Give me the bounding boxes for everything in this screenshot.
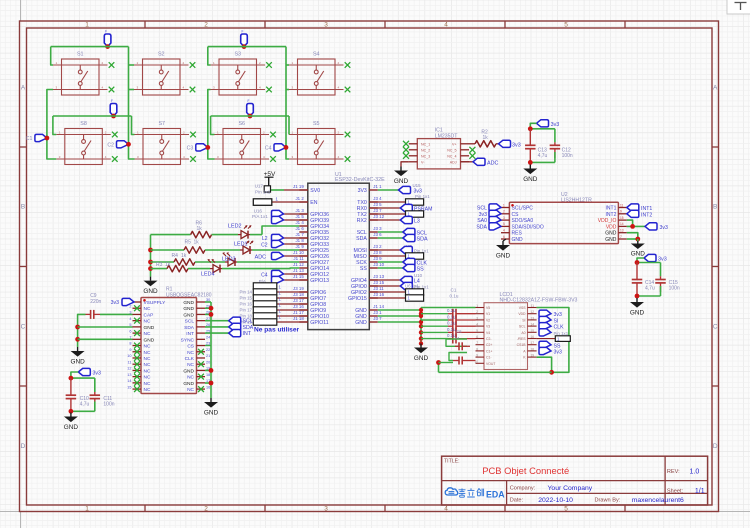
svg-text:11: 11	[531, 304, 535, 308]
svg-text:U16: U16	[254, 209, 263, 214]
svg-text:SCL: SCL	[243, 319, 253, 325]
svg-text:TITLE:: TITLE:	[444, 458, 460, 464]
svg-text:9: 9	[620, 210, 622, 214]
svg-text:2: 2	[204, 22, 208, 29]
svg-text:B: B	[713, 204, 717, 211]
svg-text:C: C	[713, 324, 718, 331]
svg-text:J1 15: J1 15	[293, 274, 304, 279]
svg-text:GND: GND	[143, 288, 158, 295]
svg-text:R4: R4	[172, 253, 179, 259]
svg-text:PCB Objet Connecté: PCB Objet Connecté	[482, 465, 569, 476]
svg-text:LED1: LED1	[234, 242, 248, 248]
svg-text:S2: S2	[158, 52, 165, 58]
svg-text:GND: GND	[204, 410, 219, 417]
svg-text:GND: GND	[183, 381, 194, 387]
svg-text:ADC: ADC	[255, 255, 266, 261]
svg-text:C1: C1	[26, 136, 33, 142]
svg-text:RX2: RX2	[357, 218, 367, 224]
svg-text:5: 5	[476, 329, 478, 333]
svg-text:17: 17	[530, 341, 534, 345]
svg-text:NC: NC	[187, 387, 194, 393]
svg-text:4: 4	[129, 317, 131, 321]
svg-text:J3 1: J3 1	[373, 310, 382, 315]
svg-text:SCL: SCL	[185, 319, 195, 325]
svg-text:3v3: 3v3	[479, 212, 487, 218]
svg-text:7: 7	[620, 235, 622, 239]
svg-text:5: 5	[503, 222, 505, 226]
svg-text:3v3: 3v3	[660, 225, 668, 231]
svg-text:4: 4	[503, 229, 505, 233]
svg-text:LED3: LED3	[222, 257, 236, 263]
svg-text:J3 4: J3 4	[373, 196, 382, 201]
svg-text:C1+: C1+	[486, 349, 492, 353]
svg-text:F: F	[105, 30, 107, 34]
svg-text:J1 10: J1 10	[293, 250, 304, 255]
svg-text:A: A	[713, 85, 718, 92]
svg-text:J1 13: J1 13	[293, 268, 304, 273]
svg-text:3: 3	[324, 22, 328, 29]
svg-text:C2: C2	[107, 142, 114, 148]
svg-text:GND: GND	[183, 368, 194, 374]
svg-text:SI: SI	[554, 319, 559, 325]
svg-text:4,7u: 4,7u	[80, 401, 90, 407]
svg-text:1k: 1k	[194, 240, 200, 246]
svg-text:14: 14	[620, 222, 624, 226]
svg-text:EDA: EDA	[486, 489, 505, 499]
svg-text:J1 2: J1 2	[295, 196, 304, 201]
svg-text:GND: GND	[70, 359, 85, 366]
svg-text:2: 2	[204, 505, 208, 512]
svg-text:EN: EN	[310, 200, 317, 206]
svg-text:Pin 16: Pin 16	[240, 302, 253, 307]
svg-text:8: 8	[129, 342, 131, 346]
svg-text:NC: NC	[144, 356, 151, 362]
svg-text:4: 4	[444, 505, 448, 512]
svg-text:NC_4: NC_4	[447, 154, 456, 158]
svg-text:NC: NC	[144, 362, 151, 368]
svg-text:3v3: 3v3	[551, 122, 560, 128]
svg-text:V2: V2	[486, 318, 490, 322]
svg-text:NC: NC	[144, 344, 151, 350]
svg-text:J3 17: J3 17	[293, 298, 304, 303]
svg-text:J3 15: J3 15	[373, 280, 384, 285]
svg-text:SA0: SA0	[477, 218, 487, 224]
svg-text:1k: 1k	[181, 253, 187, 259]
svg-text:NC_2: NC_2	[421, 148, 430, 152]
svg-text:NC: NC	[144, 331, 151, 337]
svg-text:11: 11	[620, 203, 624, 207]
svg-text:J3 10: J3 10	[373, 262, 384, 267]
svg-text:VSS: VSS	[519, 306, 527, 310]
svg-text:GND: GND	[605, 231, 617, 237]
svg-text:VDD: VDD	[606, 224, 617, 230]
svg-text:10: 10	[127, 354, 131, 358]
svg-text:0.1u: 0.1u	[447, 315, 456, 320]
svg-text:GPIO13: GPIO13	[310, 278, 329, 284]
svg-text:GND: GND	[523, 176, 538, 183]
svg-text:VDD: VDD	[518, 312, 526, 316]
svg-text:12: 12	[127, 367, 131, 371]
svg-text:ESP32-DevKitC-32E: ESP32-DevKitC-32E	[335, 177, 385, 183]
svg-text:NC: NC	[144, 368, 151, 374]
svg-text:14: 14	[127, 379, 131, 383]
svg-text:LED2: LED2	[228, 224, 242, 230]
svg-text:S4: S4	[313, 52, 320, 58]
svg-text:J1 1: J1 1	[373, 184, 382, 189]
svg-text:3v3: 3v3	[658, 257, 667, 263]
svg-text:9: 9	[476, 354, 478, 358]
svg-text:13: 13	[127, 373, 131, 377]
svg-text:3v3: 3v3	[554, 312, 562, 318]
svg-text:J1 3: J1 3	[295, 208, 304, 213]
svg-text:6: 6	[129, 329, 131, 333]
svg-text:SDO/SA0: SDO/SA0	[512, 218, 534, 224]
svg-text:Pin 1x1: Pin 1x1	[255, 190, 271, 195]
svg-text:NC: NC	[144, 381, 151, 387]
svg-text:16: 16	[530, 335, 534, 339]
svg-text:J3 7: J3 7	[373, 208, 382, 213]
svg-text:D: D	[21, 443, 26, 450]
svg-text:NC: NC	[187, 375, 194, 381]
svg-text:15: 15	[530, 329, 534, 333]
svg-text:13: 13	[530, 316, 534, 320]
svg-text:L2: L2	[262, 236, 268, 242]
svg-text:1.0: 1.0	[690, 469, 700, 476]
svg-text:NC: NC	[144, 319, 151, 325]
svg-text:GND: GND	[394, 178, 409, 185]
svg-text:Ne pas utiliser: Ne pas utiliser	[254, 327, 300, 334]
svg-text:2: 2	[129, 304, 131, 308]
svg-text:GND: GND	[144, 337, 155, 343]
svg-text:1: 1	[85, 22, 89, 29]
svg-text:GND: GND	[496, 253, 511, 260]
svg-text:S6: S6	[238, 121, 245, 127]
svg-text:1: 1	[503, 203, 505, 207]
svg-text:RES: RES	[512, 231, 523, 237]
svg-text:U15: U15	[413, 183, 422, 188]
svg-text:SDA: SDA	[476, 224, 487, 230]
svg-text:SV0: SV0	[310, 188, 320, 194]
svg-text:J3 5: J3 5	[373, 202, 382, 207]
svg-text:CLK: CLK	[554, 325, 565, 331]
svg-text:V5: V5	[486, 306, 490, 310]
svg-text:12: 12	[530, 310, 534, 314]
svg-text:20: 20	[206, 360, 210, 364]
svg-text:SDA: SDA	[356, 236, 367, 242]
svg-text:V3: V3	[486, 325, 490, 329]
svg-text:J1 8: J1 8	[295, 238, 304, 243]
svg-text:GND: GND	[144, 325, 155, 331]
svg-text:S1: S1	[77, 52, 84, 58]
svg-text:3: 3	[324, 505, 328, 512]
svg-text:GND: GND	[183, 300, 194, 306]
svg-text:U6 1x1: U6 1x1	[405, 283, 419, 288]
svg-text:0.1u: 0.1u	[447, 308, 456, 313]
svg-text:SCL: SCL	[477, 206, 487, 212]
svg-text:J3 13: J3 13	[373, 274, 384, 279]
svg-text:GPIO11: GPIO11	[310, 320, 328, 326]
svg-text:0.1u: 0.1u	[447, 321, 456, 326]
svg-text:INT1: INT1	[606, 206, 617, 212]
svg-text:Your Company: Your Company	[548, 485, 593, 492]
svg-text:J1 5: J1 5	[295, 214, 304, 219]
svg-text:CS: CS	[512, 212, 520, 218]
svg-text:S3: S3	[234, 52, 241, 58]
svg-text:J1 18: J1 18	[293, 316, 304, 321]
svg-text:J1 11: J1 11	[293, 256, 304, 261]
svg-text:3v3: 3v3	[554, 350, 562, 356]
svg-text:U1: U1	[335, 172, 342, 178]
svg-text:NC: NC	[144, 350, 151, 356]
svg-text:1: 1	[476, 304, 478, 308]
svg-text:C1-: C1-	[486, 356, 491, 360]
svg-text:J3 11: J3 11	[373, 286, 384, 291]
svg-text:S8: S8	[80, 121, 87, 127]
svg-text:SDA: SDA	[417, 237, 428, 243]
svg-text:21: 21	[206, 354, 210, 358]
svg-text:C4: C4	[261, 273, 268, 279]
svg-text:INT: INT	[186, 331, 194, 337]
svg-text:Sheet:: Sheet:	[667, 488, 684, 494]
svg-text:S7: S7	[158, 121, 165, 127]
svg-text:3: 3	[503, 216, 505, 220]
svg-text:16: 16	[206, 385, 210, 389]
svg-text:9: 9	[129, 348, 131, 352]
svg-text:NC: NC	[144, 375, 151, 381]
svg-text:C3: C3	[187, 145, 194, 151]
svg-text:C: C	[21, 324, 26, 331]
svg-text:Date:: Date:	[510, 498, 524, 504]
svg-text:S5: S5	[313, 121, 320, 127]
svg-text:1k: 1k	[197, 226, 203, 232]
svg-text:NC: NC	[144, 306, 151, 312]
svg-text:LED4: LED4	[201, 272, 215, 278]
svg-text:C2: C2	[261, 243, 268, 249]
svg-text:J3 7: J3 7	[373, 316, 382, 321]
svg-text:18: 18	[206, 373, 210, 377]
svg-text:SS: SS	[417, 267, 425, 273]
svg-text:REV:: REV:	[667, 469, 680, 475]
svg-text:1/1: 1/1	[695, 488, 705, 495]
svg-text:4,7u: 4,7u	[538, 153, 548, 159]
svg-text:SI: SI	[522, 318, 525, 322]
svg-text:C2-: C2-	[486, 337, 491, 341]
svg-text:SS: SS	[360, 266, 367, 272]
svg-text:C6: C6	[456, 329, 462, 334]
svg-text:3: 3	[476, 316, 478, 320]
svg-text:CS: CS	[187, 344, 194, 350]
svg-text:A: A	[21, 85, 26, 92]
svg-text:NC: NC	[187, 362, 194, 368]
svg-text:14: 14	[530, 323, 534, 327]
svg-text:B: B	[21, 204, 25, 211]
svg-text:F: F	[111, 99, 113, 103]
svg-text:U17: U17	[255, 184, 264, 189]
svg-text:U10: U10	[414, 273, 423, 278]
svg-text:22: 22	[206, 348, 210, 352]
svg-text:F: F	[242, 30, 244, 34]
svg-text:J1 4: J1 4	[295, 220, 304, 225]
svg-text:Pin 17: Pin 17	[240, 308, 253, 313]
svg-text:ADJ: ADJ	[450, 160, 457, 164]
svg-text:INT2: INT2	[641, 212, 652, 218]
svg-text:4: 4	[444, 22, 448, 29]
svg-text:3V3: 3V3	[358, 188, 367, 194]
svg-text:2: 2	[476, 310, 478, 314]
svg-text:J1 9: J1 9	[295, 244, 304, 249]
svg-text:100n: 100n	[103, 401, 114, 407]
svg-text:NC_3: NC_3	[421, 154, 430, 158]
svg-text:VDD_IO: VDD_IO	[598, 218, 617, 224]
svg-text:V4: V4	[486, 331, 490, 335]
svg-text:INT1: INT1	[641, 206, 652, 212]
svg-text:VOUT: VOUT	[486, 362, 495, 366]
svg-text:J1 12: J1 12	[293, 262, 304, 267]
svg-text:19: 19	[530, 354, 534, 358]
svg-text:15: 15	[127, 385, 131, 389]
svg-text:F: F	[248, 99, 250, 103]
svg-text:maxencelaurent6: maxencelaurent6	[632, 497, 684, 504]
svg-text:J3 8: J3 8	[373, 250, 382, 255]
svg-text:18: 18	[530, 347, 534, 351]
svg-text:NC: NC	[144, 387, 151, 393]
svg-text:15: 15	[620, 216, 624, 220]
svg-text:GND: GND	[605, 237, 617, 243]
svg-text:J3 12: J3 12	[373, 214, 384, 219]
svg-text:11: 11	[128, 360, 132, 364]
svg-text:2022-10-10: 2022-10-10	[538, 497, 573, 504]
svg-text:Company:: Company:	[510, 485, 536, 491]
svg-text:J3 16: J3 16	[293, 304, 304, 309]
svg-text:6: 6	[476, 335, 478, 339]
svg-text:5: 5	[564, 22, 568, 29]
svg-text:CAP: CAP	[144, 312, 154, 318]
svg-text:3v3: 3v3	[111, 300, 119, 306]
svg-text:C4: C4	[265, 145, 272, 151]
svg-text:Pin 14: Pin 14	[240, 290, 253, 295]
svg-text:1k: 1k	[165, 262, 171, 268]
svg-text:CLK: CLK	[185, 356, 195, 362]
svg-text:0.1u: 0.1u	[450, 294, 459, 299]
svg-text:GND: GND	[183, 312, 194, 318]
svg-text:CS1B: CS1B	[517, 343, 527, 347]
svg-text:J1 7: J1 7	[295, 232, 304, 237]
svg-text:/RES: /RES	[518, 337, 527, 341]
svg-text:Pin 15: Pin 15	[240, 296, 253, 301]
svg-text:C2+: C2+	[486, 343, 492, 347]
svg-text:NC_1: NC_1	[421, 142, 430, 146]
svg-text:J1 17: J1 17	[293, 310, 304, 315]
svg-text:2: 2	[503, 210, 505, 214]
svg-text:VSUPPLY: VSUPPLY	[144, 300, 167, 306]
svg-text:D: D	[713, 443, 718, 450]
svg-text:GND: GND	[183, 306, 194, 312]
svg-text:3v3: 3v3	[512, 142, 521, 148]
svg-text:5: 5	[564, 505, 568, 512]
svg-text:J1 14: J1 14	[373, 304, 384, 309]
svg-text:GND: GND	[414, 355, 429, 362]
svg-text:J3 9: J3 9	[373, 256, 382, 261]
svg-text:SDA/SDI/SDO: SDA/SDI/SDO	[512, 224, 544, 230]
svg-text:3v3: 3v3	[93, 371, 101, 377]
svg-text:1: 1	[85, 505, 89, 512]
svg-text:L3: L3	[414, 219, 420, 225]
svg-text:A0: A0	[521, 331, 525, 335]
svg-text:SDA: SDA	[243, 325, 254, 331]
svg-text:C1: C1	[451, 288, 457, 293]
svg-text:6: 6	[503, 235, 505, 239]
svg-text:0.1u: 0.1u	[447, 327, 456, 332]
svg-text:13: 13	[620, 229, 624, 233]
svg-text:hz: hz	[455, 335, 459, 340]
svg-text:8: 8	[476, 347, 478, 351]
svg-text:GND: GND	[64, 424, 79, 431]
svg-text:4,7u: 4,7u	[645, 286, 655, 292]
svg-text:NC_5: NC_5	[447, 148, 456, 152]
svg-text:J3 6: J3 6	[373, 232, 382, 237]
svg-text:GND: GND	[512, 237, 524, 243]
svg-text:SDA: SDA	[184, 325, 195, 331]
svg-text:24: 24	[206, 336, 210, 340]
svg-text:R3: R3	[156, 262, 163, 268]
svg-text:J3 16: J3 16	[373, 292, 384, 297]
svg-text:J3 2: J3 2	[373, 244, 382, 249]
svg-text:GND: GND	[630, 310, 645, 317]
svg-text:R5: R5	[185, 240, 192, 246]
svg-text:J3 18: J3 18	[293, 292, 304, 297]
svg-text:ADC: ADC	[487, 160, 498, 166]
svg-text:GND: GND	[631, 251, 646, 258]
svg-text:J1 19: J1 19	[293, 184, 304, 189]
svg-text:100n: 100n	[562, 153, 573, 159]
svg-text:GPIO15: GPIO15	[348, 296, 367, 302]
svg-text:V1: V1	[486, 312, 490, 316]
svg-text:7: 7	[476, 341, 478, 345]
svg-text:J1 6: J1 6	[295, 226, 304, 231]
svg-text:INT: INT	[243, 331, 252, 337]
svg-text:SCL: SCL	[519, 325, 526, 329]
svg-text:P/A 1x1: P/A 1x1	[252, 214, 268, 219]
svg-text:Drawn By:: Drawn By:	[595, 498, 621, 504]
svg-text:SS: SS	[554, 343, 561, 349]
svg-text:NC: NC	[187, 350, 194, 356]
svg-text:SCL/SPC: SCL/SPC	[512, 206, 534, 212]
svg-text:Pin 1x1: Pin 1x1	[554, 331, 569, 336]
svg-text:GND: GND	[355, 320, 367, 326]
svg-text:INT2: INT2	[606, 212, 617, 218]
svg-text:100n: 100n	[669, 286, 680, 292]
svg-text:J3 3: J3 3	[373, 226, 382, 231]
svg-text:1k: 1k	[483, 135, 489, 141]
svg-text:V+: V+	[452, 142, 457, 146]
svg-text:SYNC: SYNC	[181, 337, 195, 343]
svg-text:220n: 220n	[90, 299, 101, 305]
svg-text:J3 19: J3 19	[293, 286, 304, 291]
svg-text:4: 4	[476, 323, 478, 327]
